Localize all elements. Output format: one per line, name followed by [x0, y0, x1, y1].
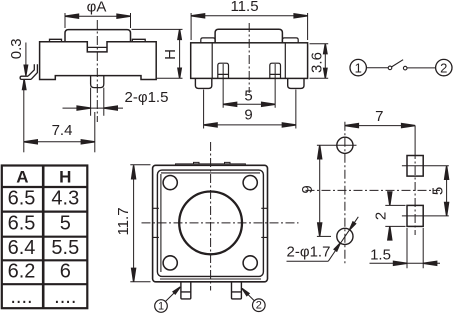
table row lines	[2, 187, 88, 284]
pcb pad 2	[407, 205, 423, 226]
svg-text:2-φ1.5: 2-φ1.5	[125, 89, 169, 106]
table outer border	[2, 166, 88, 309]
top view extra top line	[161, 172, 260, 174]
top view left side tab	[153, 208, 159, 237]
svg-text:11.7: 11.7	[115, 207, 132, 235]
side view plunger notch inner line	[87, 46, 107, 48]
svg-text:3.6: 3.6	[309, 52, 326, 73]
dimension 2-phi1.5 line	[63, 107, 124, 109]
svg-text:2-φ1.7: 2-φ1.7	[287, 244, 331, 261]
svg-text:2: 2	[256, 300, 262, 312]
svg-text:6.5: 6.5	[8, 212, 36, 234]
dimension 2 extension lines	[385, 205, 405, 226]
dimension 9 arrows	[318, 145, 322, 159]
front view right tab	[282, 38, 298, 43]
svg-text:0.3: 0.3	[8, 38, 25, 59]
schematic contact circle left	[388, 66, 392, 70]
top view center button circle	[179, 192, 242, 255]
dimension 5 extension lines	[223, 64, 275, 108]
pcb hole 1 horizontal crosshair / 9 extension	[317, 144, 357, 146]
schematic contact circle right	[403, 66, 407, 70]
pcb hole 2 horizontal crosshair	[317, 235, 331, 237]
front view left foot	[195, 78, 211, 88]
svg-text:11.5: 11.5	[230, 0, 258, 15]
label 2-phi1.7 leader diagonal	[328, 217, 358, 261]
pcb hole 1	[337, 137, 353, 153]
dimension H arrows	[178, 29, 181, 39]
top view corner circle TR	[243, 176, 257, 190]
front view right foot	[288, 78, 304, 88]
dimension 5 line	[446, 166, 448, 216]
dimension 2 lines with outside arrows	[389, 193, 391, 239]
svg-text:1: 1	[158, 301, 164, 313]
dimension 7 right extension	[414, 126, 416, 150]
svg-text:H: H	[162, 49, 179, 60]
pcb hole 2	[337, 228, 353, 244]
schematic wire left	[366, 67, 388, 69]
svg-text:5: 5	[429, 187, 446, 195]
svg-text:6.2: 6.2	[8, 261, 36, 283]
dimension 5 line	[223, 103, 275, 105]
pcb pad 1	[407, 156, 423, 177]
svg-text:7: 7	[375, 108, 383, 125]
pcb pad centerline vertical	[414, 150, 416, 235]
svg-text:9: 9	[244, 107, 252, 124]
dimension 11.5 extension lines	[191, 13, 308, 40]
top view horizontal centerline	[142, 222, 299, 224]
front view inner vertical lines	[212, 43, 285, 79]
front view cap	[215, 29, 282, 43]
svg-text:4.3: 4.3	[51, 187, 79, 209]
front view vertical centerline	[248, 23, 250, 93]
svg-text:φA: φA	[87, 0, 107, 16]
side view vertical centerline	[96, 20, 98, 122]
side view terminal pins	[91, 88, 104, 116]
top view inner square	[157, 170, 263, 276]
dimension 3.6 line	[324, 44, 326, 79]
dimension 11.5 arrows	[191, 14, 205, 18]
dimension 7 arrows	[345, 124, 359, 128]
svg-text:A: A	[16, 168, 28, 187]
pcb horizontal centerline	[306, 189, 441, 191]
top view corner circle BR	[243, 256, 257, 270]
dimension 5 arrows	[223, 102, 237, 106]
schematic switch lever	[392, 60, 404, 67]
svg-text:H: H	[59, 168, 71, 187]
svg-text:....: ....	[10, 286, 32, 308]
dimension 0.3 upper line with down arrow	[25, 43, 27, 76]
dimension 9 extension lines	[204, 90, 296, 129]
top view right side tab	[261, 208, 267, 237]
top view vertical centerline	[210, 142, 212, 291]
dimension phiA extension lines	[65, 13, 131, 28]
pcb vertical centerline through holes	[344, 122, 346, 265]
top view outer square	[153, 165, 268, 281]
dimension 1.5 extension lines	[407, 228, 423, 268]
side view cap (button)	[65, 30, 131, 42]
dimension 7 line	[345, 125, 415, 127]
side view body outline	[40, 42, 157, 80]
dimension 3.6 extension lines	[310, 44, 329, 79]
dimension 1.5 arrows (outside style)	[394, 261, 408, 265]
pcb pad 1 horizontal centerline	[402, 165, 449, 167]
top view extra bottom line	[160, 278, 261, 280]
dimension 0.3 lower line with up arrow	[23, 80, 25, 153]
dimension phiA line	[65, 15, 131, 17]
dimension 11.7 line	[133, 165, 135, 281]
svg-text:7.4: 7.4	[52, 122, 73, 139]
side view left top bump	[50, 39, 62, 42]
svg-text:2: 2	[373, 212, 390, 220]
dimension 11.7 extension lines	[130, 165, 150, 282]
dimension 1.5 line	[370, 262, 441, 264]
dimension H extension lines	[132, 29, 183, 78]
dimension 3.6 arrows	[324, 44, 327, 54]
svg-text:6.4: 6.4	[8, 237, 36, 259]
schematic terminal circle 1	[350, 59, 366, 75]
label 2-phi1.7 leader underline	[287, 260, 329, 262]
side view bottom terminal boss	[91, 76, 104, 88]
dimension 9 line	[204, 124, 296, 126]
label 2-phi1.7 leader arrows	[334, 242, 341, 251]
top view top edge strip	[176, 164, 246, 165]
svg-text:1: 1	[355, 61, 362, 76]
front view body	[191, 43, 308, 79]
svg-text:9: 9	[299, 185, 316, 193]
front view terminal 2	[270, 63, 281, 78]
top view terminal 2	[232, 282, 242, 299]
dimension 11.5 line	[191, 15, 308, 17]
front view left tab	[201, 38, 215, 43]
dimension 7.4 line	[24, 141, 95, 143]
dimension H line	[179, 29, 181, 78]
top view corner circle BL	[163, 256, 177, 270]
leader balloon 2	[252, 299, 265, 312]
top view terminal 1	[181, 282, 191, 299]
dimension 11.7 arrows	[132, 165, 136, 179]
side view gull-wing lead bend	[28, 64, 37, 79]
pcb pad 2 horizontal centerline	[402, 215, 449, 217]
dimension 9 arrows	[204, 123, 218, 127]
table column divider	[42, 166, 45, 309]
dimension 2-phi1.5 arrows (outside style)	[77, 106, 91, 110]
svg-text:....: ....	[54, 286, 76, 308]
dimension 7.4 extension right	[94, 112, 96, 152]
svg-text:6.5: 6.5	[8, 187, 36, 209]
svg-text:5: 5	[244, 87, 252, 104]
side view right top bump	[132, 39, 145, 42]
svg-text:2: 2	[440, 61, 447, 76]
svg-text:5: 5	[60, 212, 71, 234]
dimension 5 arrows	[445, 166, 449, 180]
top view corner circle TL	[163, 176, 177, 190]
top view top edge bumps	[194, 162, 231, 164]
schematic wire right	[407, 67, 436, 69]
leader balloon 1	[155, 300, 168, 313]
svg-text:6: 6	[60, 261, 71, 283]
dimension 9 line	[319, 145, 321, 236]
dimension 7.4 arrows	[24, 140, 38, 144]
svg-text:1.5: 1.5	[370, 246, 391, 263]
schematic terminal circle 2	[436, 59, 452, 75]
top view extra left line	[160, 174, 162, 272]
side view gull-wing lead foot	[20, 76, 31, 79]
svg-text:5.5: 5.5	[51, 237, 79, 259]
front view terminal 1	[218, 63, 229, 78]
dimension phiA arrows	[65, 14, 79, 18]
